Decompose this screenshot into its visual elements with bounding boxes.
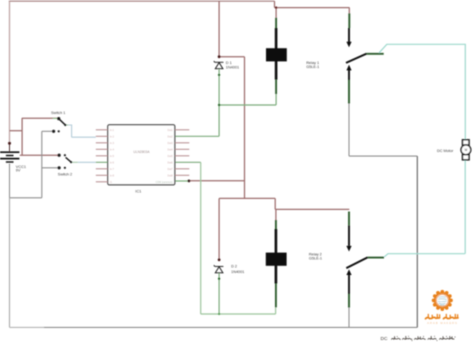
svg-text:Out8: Out8	[167, 174, 173, 177]
svg-text:DC: DC	[381, 336, 388, 342]
svg-text:ULN2803A: ULN2803A	[133, 150, 150, 154]
svg-text:In 8: In 8	[110, 174, 115, 177]
svg-text:Out5: Out5	[167, 155, 173, 158]
svg-text:In 5: In 5	[110, 155, 115, 158]
svg-text:D 1: D 1	[226, 61, 232, 65]
svg-text:IC1: IC1	[135, 189, 141, 193]
svg-text:Switch 2: Switch 2	[58, 172, 72, 176]
svg-text:In 6: In 6	[110, 161, 115, 164]
svg-text:Out4: Out4	[167, 148, 173, 151]
svg-text:COM (common): COM (common)	[156, 181, 173, 184]
svg-text:D 2: D 2	[231, 265, 237, 269]
svg-text:In 1: In 1	[110, 129, 115, 132]
svg-text:In 7: In 7	[110, 168, 115, 171]
svg-text:1N4001: 1N4001	[226, 66, 239, 70]
svg-text:Out3: Out3	[167, 142, 173, 145]
svg-text:In 2: In 2	[110, 135, 115, 138]
svg-text:Switch 1: Switch 1	[51, 111, 65, 115]
svg-text:G: G	[110, 181, 112, 184]
svg-text:Out7: Out7	[167, 168, 173, 171]
svg-text:M: M	[465, 148, 468, 152]
svg-text:ARAB MAKERS: ARAB MAKERS	[427, 321, 458, 325]
svg-text:G5LE-1: G5LE-1	[309, 257, 322, 261]
svg-text:DC Motor: DC Motor	[437, 149, 454, 153]
svg-text:Out1: Out1	[167, 129, 173, 132]
svg-text:G5LE-1: G5LE-1	[306, 65, 319, 69]
svg-text:9V: 9V	[16, 168, 21, 172]
svg-text:In 4: In 4	[110, 148, 115, 151]
svg-text:Out6: Out6	[167, 161, 173, 164]
svg-text:Out2: Out2	[167, 135, 173, 138]
svg-text:In 3: In 3	[110, 142, 115, 145]
svg-text:1N4001: 1N4001	[231, 270, 244, 274]
